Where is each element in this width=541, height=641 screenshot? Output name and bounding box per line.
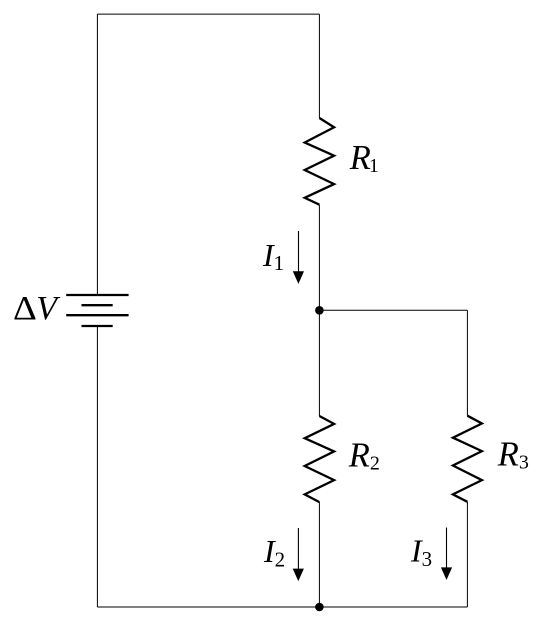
wire R3 bottom to bottom wire xyxy=(466,502,468,607)
svg-text:I2: I2 xyxy=(263,533,285,572)
svg-text:R3: R3 xyxy=(497,436,529,474)
svg-text:R1: R1 xyxy=(349,139,379,177)
current arrow I3 xyxy=(441,528,452,581)
wire node A down to R2 xyxy=(318,310,320,416)
node A junction dot xyxy=(315,306,324,315)
wire R2 bottom to node B xyxy=(318,502,320,607)
svg-text:Δ: Δ xyxy=(13,288,37,326)
wire top horizontal xyxy=(97,13,319,15)
resistor R2 xyxy=(305,416,334,502)
battery source ΔV xyxy=(66,295,128,326)
node B junction dot xyxy=(315,603,324,612)
wire right vertical upper (mid horizontal to R3) xyxy=(466,310,468,415)
svg-text:I3: I3 xyxy=(410,533,432,572)
svg-text:I1: I1 xyxy=(262,237,284,275)
wire bottom horizontal xyxy=(97,606,467,608)
svg-text:V: V xyxy=(36,290,61,327)
current arrow I2 xyxy=(293,528,304,581)
current arrow I1 xyxy=(293,231,304,284)
resistor R3 xyxy=(453,416,482,502)
wire left vertical lower (battery - plate to bottom wire) xyxy=(96,326,98,607)
wire left vertical upper (top wire to battery + plate) xyxy=(96,14,98,295)
svg-text:R2: R2 xyxy=(348,437,380,475)
wire middle horizontal (node A to right branch) xyxy=(319,309,467,311)
wire R1 bottom to node A xyxy=(318,205,320,311)
resistor R1 xyxy=(305,118,334,205)
wire R1 branch top (top wire down to R1) xyxy=(318,14,320,118)
